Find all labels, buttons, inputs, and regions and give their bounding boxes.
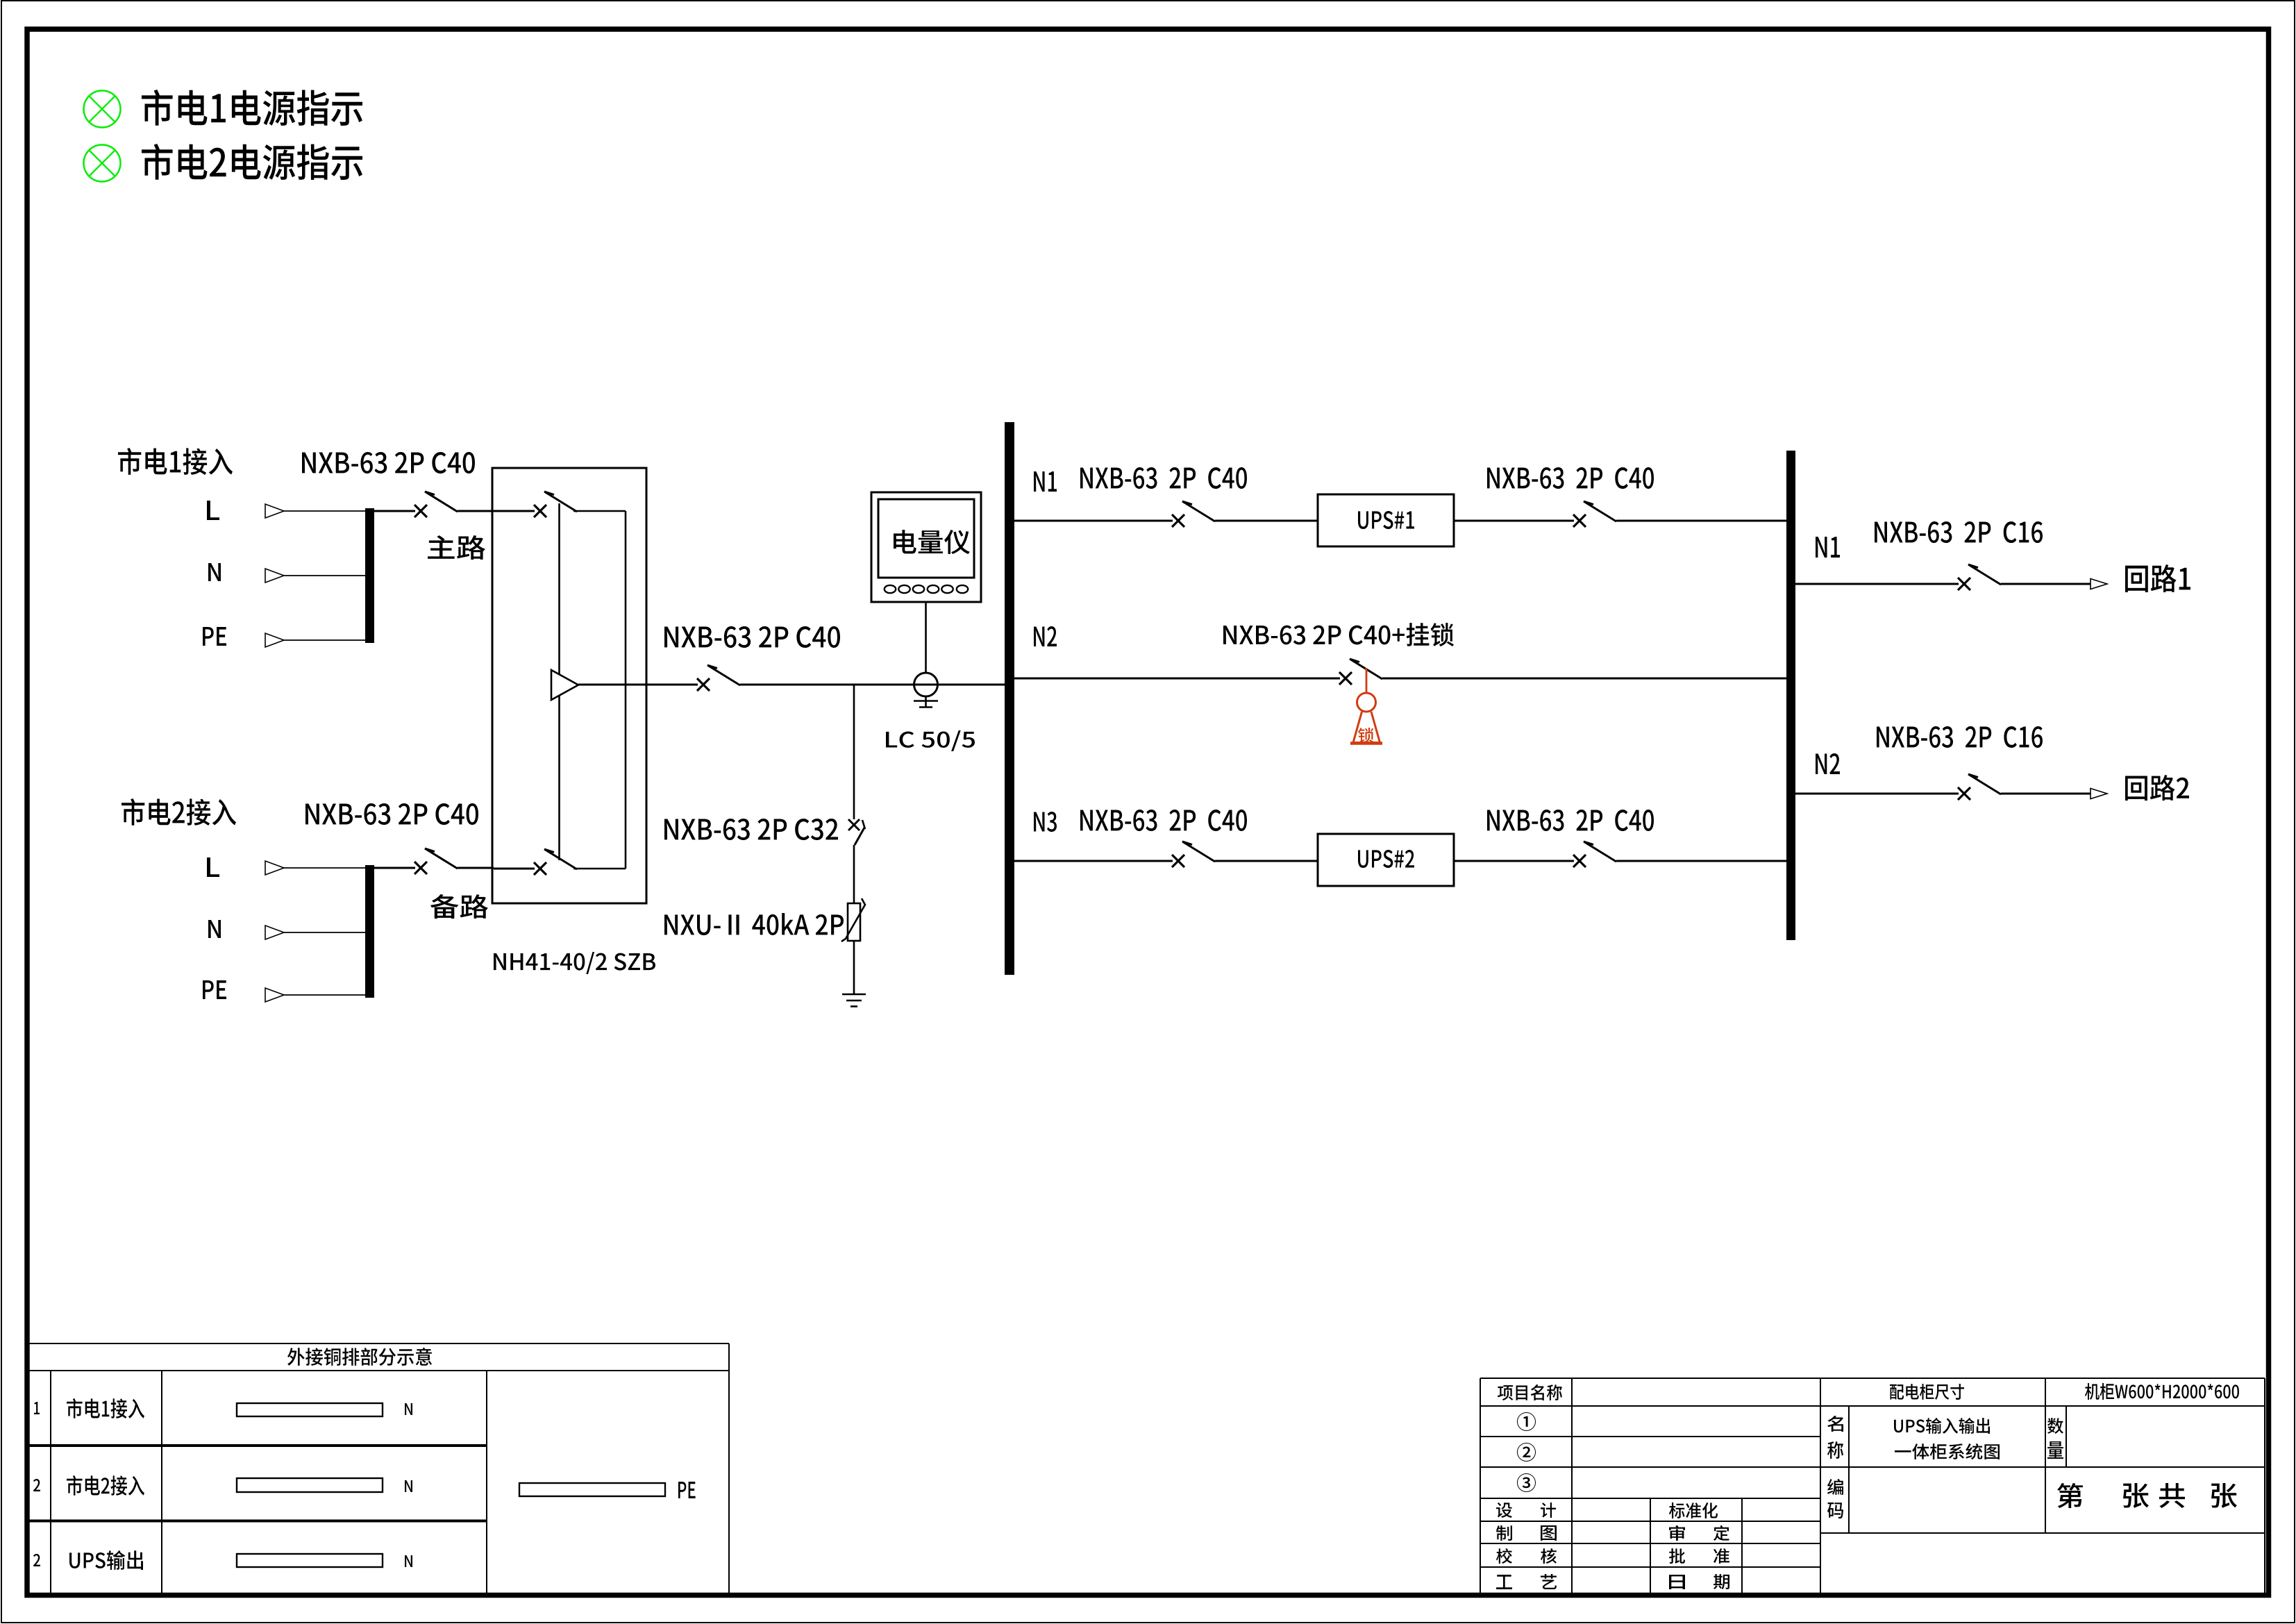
wire SPD breaker to SPD (853, 845, 855, 903)
ATS inner frame (560, 503, 626, 869)
label 制 (1496, 1525, 1512, 1541)
ATS main contact 主路 (534, 505, 546, 517)
meter box 电量仪 (871, 492, 981, 602)
wire QF7 to output busbar (1382, 678, 1786, 680)
label 艺 (1541, 1574, 1557, 1589)
terminal arrow PE mains1 (265, 633, 284, 647)
label circled 3 (1517, 1473, 1536, 1492)
busbar terminal block mains2 (365, 865, 374, 998)
label 准 (1713, 1548, 1729, 1564)
label node N1 left (1034, 471, 1057, 492)
wire UPS#2 to QF9 (1454, 860, 1574, 862)
label N terminal mains2 (208, 920, 221, 938)
N busbar graphic row2 (237, 1478, 383, 1492)
label row1 number 1 (34, 1402, 40, 1414)
wire ATS inlet 主路 (494, 510, 535, 512)
wire N mains1 (284, 575, 366, 576)
busbar terminal block mains1 (365, 508, 374, 643)
wire QF11 to circuit2 (2001, 793, 2090, 795)
wire L mains2 (284, 867, 366, 869)
busbar main (left) (1005, 422, 1014, 975)
label 定 (1713, 1525, 1729, 1541)
wire busbar to QF5 (1014, 520, 1173, 522)
breaker QF10 NXB-63 2P C16 (1958, 578, 1970, 590)
breaker QF6 NXB-63 2P C40 (1573, 514, 1586, 527)
label row3 UPS输出 (69, 1550, 143, 1570)
wire N mains2 (284, 932, 366, 933)
wire UPS#1 to QF6 (1454, 520, 1574, 522)
label 配电柜尺寸 (1890, 1384, 1964, 1400)
N busbar graphic row1 (237, 1403, 383, 1416)
label row1 市电1接入 (67, 1398, 144, 1418)
terminal arrow circuit1 (2090, 579, 2107, 589)
wire QF3 to CT (740, 684, 1005, 686)
label 回路2 (2125, 775, 2189, 801)
label 名称 (1827, 1416, 1843, 1432)
label 市电1电源指示 (142, 90, 362, 126)
label NXB-63 2P C40 QF9 (1487, 810, 1654, 831)
label NXB-63 2P C40 QF6 (1487, 467, 1654, 489)
label circled 1 (1517, 1412, 1536, 1431)
label 市电1接入 (118, 448, 233, 475)
breaker QF11 NXB-63 2P C16 (1958, 787, 1970, 800)
breaker QF7 NXB-63 2P C40+挂锁 (1339, 672, 1352, 685)
label NXB-63 2P C16 QF10 (1875, 521, 2043, 543)
label L terminal mains1 (207, 501, 219, 520)
label 市电2接入 (121, 798, 236, 826)
ATS standby contact 备路 (534, 862, 546, 875)
wire busbar to QF11 (1795, 793, 1959, 795)
label node N1 right (1816, 537, 1840, 558)
label 工 (1496, 1575, 1512, 1589)
label 标准化 (1669, 1502, 1718, 1518)
label NXB-63 2P C40 QF8 (1080, 810, 1247, 831)
label 数量 (2047, 1418, 2063, 1434)
terminal arrow L mains1 (265, 504, 284, 518)
CT earth mark (914, 696, 938, 708)
label 外接铜排部分示意 (287, 1348, 432, 1366)
label NXU-II 40kA 2P (664, 913, 844, 935)
wire mains2 to breaker QF2 (374, 867, 415, 869)
terminal arrow N mains2 (265, 926, 284, 939)
label row2 市电2接入 (67, 1475, 144, 1496)
PE busbar graphic (519, 1483, 665, 1496)
label N terminal mains1 (208, 563, 221, 581)
label UPS输入输出 (1894, 1418, 1990, 1434)
label 备路 (430, 894, 488, 919)
label N row1 (405, 1403, 412, 1415)
label NXB-63 2P C40 QF5 (1080, 467, 1247, 489)
padlock body 锁 (1350, 712, 1382, 744)
label row2 number 2 (33, 1479, 40, 1491)
label 主路 (428, 535, 485, 560)
label 批 (1669, 1548, 1685, 1564)
label NXB-63 2P C40 QF3 (664, 626, 840, 648)
breaker QF9 NXB-63 2P C40 (1573, 855, 1586, 867)
label node N2 right (1816, 753, 1840, 774)
padlock ring (1357, 693, 1376, 712)
label 设计 (1496, 1502, 1512, 1518)
wire ATS inlet 备路 (494, 868, 535, 870)
terminal arrow circuit2 (2090, 789, 2107, 799)
label 第 张 共 张 (2057, 1483, 2083, 1508)
label 电量仪 (894, 530, 970, 554)
padlock hanger wire (1366, 668, 1368, 693)
N busbar graphic row3 (237, 1554, 383, 1567)
wire ATS output (578, 684, 698, 686)
label 编码 (1827, 1479, 1843, 1495)
wire busbar to QF8 (1014, 860, 1173, 862)
breaker QF4 NXB-63 2P C32 (vertical) (848, 819, 865, 845)
breaker QF3 NXB-63 2P C40 (697, 678, 710, 691)
busbar output (right) (1786, 451, 1795, 940)
wire QF6 to output busbar (1616, 520, 1786, 522)
terminal arrow L mains2 (265, 861, 284, 875)
wire QF10 to circuit1 (2001, 583, 2090, 585)
indicator lamp HL1 市电1电源指示 (84, 91, 121, 128)
wire QF1 to ATS (458, 510, 494, 512)
label node N2 left (1034, 626, 1057, 646)
label 回路1 (2125, 564, 2190, 592)
label NXB-63 2P C32 QF4 (664, 819, 838, 840)
meter buttons (885, 585, 968, 593)
label circled 2 (1517, 1443, 1536, 1462)
terminal arrow N mains1 (265, 569, 284, 583)
label UPS#2 (1358, 850, 1414, 868)
label NXB-63 2P C16 QF11 (1877, 726, 2043, 748)
label 校 (1496, 1548, 1512, 1564)
indicator lamp HL2 市电2电源指示 (84, 145, 121, 182)
label 项目名称 (1498, 1384, 1562, 1400)
wire QF8 to UPS#2 (1215, 860, 1318, 862)
label 图 (1541, 1525, 1557, 1541)
current transformer LC 50/5 (914, 673, 938, 696)
title block grid (1480, 1378, 2265, 1595)
label 计 (1541, 1502, 1556, 1518)
breaker QF5 NXB-63 2P C40 (1172, 514, 1184, 527)
label PE terminal mains1 (203, 627, 226, 646)
surge protector NXU-II 40kA 2P (841, 898, 865, 941)
label N row2 (405, 1480, 412, 1492)
label UPS#1 (1358, 511, 1414, 529)
label NH41-40/2 SZB (494, 952, 655, 974)
legend table frame (29, 1343, 729, 1595)
label L terminal mains2 (207, 857, 219, 877)
ATS enclosure NH41-40/2 SZB (492, 468, 646, 903)
wire QF2 to ATS (458, 867, 494, 869)
breaker QF2 NXB-63 2P C40 (414, 862, 427, 874)
label 核 (1541, 1548, 1557, 1564)
terminal arrow PE mains2 (265, 988, 284, 1002)
label NXB-63 2P C40 QF1 (302, 452, 475, 474)
label 机柜W600*H2000*600 (2085, 1383, 2239, 1400)
breaker QF1 NXB-63 2P C40 (414, 505, 427, 517)
label 一体柜系统图 (1895, 1443, 2000, 1459)
label N row3 (405, 1555, 412, 1567)
label PE terminal mains2 (203, 980, 226, 999)
wire junction to SPD breaker (853, 685, 855, 819)
label 审 (1669, 1525, 1685, 1541)
label LC 50/5 (886, 730, 975, 751)
label 市电2电源指示 (142, 144, 362, 180)
wire L mains1 (284, 510, 366, 512)
label node N3 left (1034, 812, 1057, 832)
label 日 (1669, 1575, 1685, 1589)
ground (842, 994, 866, 1007)
wire SPD to ground (853, 941, 855, 994)
ATS output triangle (551, 670, 578, 700)
label NXB-63 2P C40 QF2 (305, 803, 478, 825)
label NXB-63 2P C40+挂锁 QF7 (1223, 623, 1454, 646)
UPS#2 box (1318, 834, 1454, 886)
wire busbar to QF10 (1795, 583, 1959, 585)
label PE legend (678, 1482, 696, 1498)
wire QF9 to output busbar (1616, 860, 1786, 862)
wire mains1 to breaker QF1 (374, 510, 415, 512)
UPS#1 box (1318, 494, 1454, 546)
breaker QF8 NXB-63 2P C40 (1172, 855, 1184, 867)
wire busbar to QF7 (1014, 678, 1340, 680)
wire PE mains2 (284, 994, 366, 996)
label 期 (1713, 1574, 1729, 1589)
wire QF5 to UPS#1 (1215, 520, 1318, 522)
legend table row dividers (29, 1446, 487, 1521)
wire PE mains1 (284, 639, 366, 641)
label row3 number 2 (33, 1554, 40, 1566)
wire meter to CT (925, 602, 927, 673)
